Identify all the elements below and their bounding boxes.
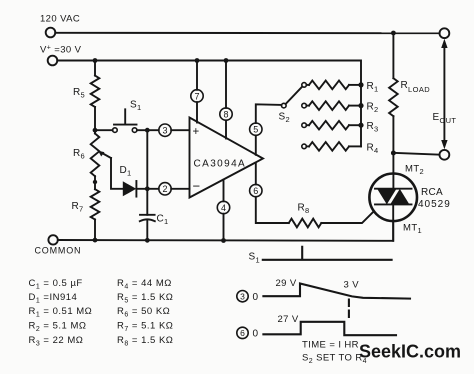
wire pin6 upper (255, 163, 257, 185)
svg-text:CA3094A: CA3094A (194, 159, 247, 170)
svg-text:R4: R4 (367, 142, 379, 155)
wire pin5 lower (255, 135, 257, 154)
triac triangle up (390, 189, 409, 204)
svg-text:S2 SET TO R4: S2 SET TO R4 (302, 353, 367, 366)
svg-text:+: + (193, 126, 200, 138)
svg-text:MT2: MT2 (405, 164, 424, 177)
wire R5 top (94, 61, 96, 76)
wire S1 to pin3 (137, 129, 159, 131)
junction V+ pin7 (195, 58, 200, 63)
svg-text:−: − (193, 179, 201, 194)
terminal EOUT top (440, 28, 450, 38)
pin 7 circle (191, 90, 203, 102)
wire common rail (58, 221, 393, 241)
resistor R5 (91, 76, 100, 107)
waveform S1 (263, 247, 392, 260)
svg-text:2: 2 (162, 184, 167, 194)
op-amp U1 CA3094A (190, 118, 264, 198)
switch S1 bar (114, 109, 137, 124)
svg-text:RLOAD: RLOAD (401, 80, 431, 94)
switch S2 wiper (286, 87, 303, 104)
waveform pin6 (263, 322, 396, 335)
wire pin2 to opamp (171, 188, 189, 190)
svg-text:C1: C1 (157, 214, 169, 227)
svg-text:R1 = 0.51 MΩ: R1 = 0.51 MΩ (29, 306, 93, 319)
svg-text:R8 = 1.5 KΩ: R8 = 1.5 KΩ (117, 335, 173, 348)
wire pin8 bottom (225, 120, 227, 138)
switch contact R1 (302, 83, 307, 88)
junction V+ pin8 (224, 58, 229, 63)
svg-text:6: 6 (240, 328, 245, 338)
triac bars (375, 188, 412, 190)
svg-text:4: 4 (221, 203, 226, 213)
junction node A (145, 128, 150, 133)
svg-text:S1: S1 (249, 252, 260, 265)
resistor R1 (306, 84, 309, 86)
junction R2 right (358, 103, 363, 108)
node 6 waveform circle (237, 327, 248, 338)
svg-text:S2: S2 (279, 112, 290, 125)
resistor RLOAD (389, 78, 398, 116)
resistor R4 (306, 145, 309, 147)
svg-text:27 V: 27 V (278, 314, 299, 325)
svg-text:C1 = 0.5 µF: C1 = 0.5 µF (29, 278, 83, 291)
wire MT1 (392, 204, 394, 240)
resistor R7 (91, 189, 100, 219)
resistor R2 (306, 105, 309, 107)
wire wiper to D1 (111, 158, 123, 189)
svg-text:SeekIC.com: SeekIC.com (359, 342, 461, 362)
wire to S1 (95, 129, 113, 131)
svg-text:40529: 40529 (418, 199, 451, 210)
wiper arrow R6 (102, 153, 112, 158)
waveform pin3 (263, 284, 410, 299)
svg-text:R8: R8 (298, 203, 310, 216)
junction rail C1 (145, 238, 150, 243)
junction D1 node (145, 186, 150, 191)
wire pin4 bottom (223, 214, 225, 241)
svg-text:R6: R6 (73, 148, 85, 161)
resistor R6 potentiometer (91, 134, 100, 177)
svg-text:R2 = 5.1 MΩ: R2 = 5.1 MΩ (29, 321, 87, 334)
junction EOUT (391, 151, 396, 156)
svg-text:7: 7 (194, 91, 199, 101)
wire C1 bottom (146, 220, 148, 240)
svg-text:8: 8 (223, 110, 228, 120)
svg-text:R1: R1 (367, 81, 379, 94)
wire pin7 top (196, 61, 198, 90)
wire D1 to pin2 (136, 188, 158, 190)
svg-text:6: 6 (253, 186, 258, 196)
svg-text:3 V: 3 V (344, 280, 360, 291)
svg-text:R4 = 44 MΩ: R4 = 44 MΩ (117, 278, 172, 291)
switch S1 contact left (113, 128, 118, 133)
junction S1 branch (93, 128, 98, 133)
wire pin7 bottom (196, 102, 198, 122)
pin 6 circle (250, 184, 262, 196)
svg-text:R5 = 1.5 KΩ: R5 = 1.5 KΩ (117, 292, 173, 305)
pin 3 circle (159, 124, 171, 136)
switch S2 pole (282, 103, 287, 108)
svg-text:120 VAC: 120 VAC (40, 14, 80, 25)
wire pin8 top (225, 61, 227, 108)
junction RLOAD top (391, 31, 396, 36)
wire RLOAD top (392, 33, 394, 78)
svg-text:R7: R7 (72, 201, 84, 214)
svg-text:R7 = 5.1 KΩ: R7 = 5.1 KΩ (117, 321, 173, 334)
svg-text:RCA: RCA (421, 187, 443, 198)
svg-text:3: 3 (162, 126, 167, 136)
wire RLOAD bottom (392, 116, 394, 153)
dashed marker (348, 300, 350, 318)
svg-text:5: 5 (253, 125, 258, 135)
wire EOUT (393, 153, 439, 155)
capacitor C1 (140, 214, 155, 216)
svg-text:R3 = 22 MΩ: R3 = 22 MΩ (29, 335, 84, 348)
svg-text:S1: S1 (130, 100, 141, 113)
pin 2 circle (159, 183, 171, 195)
wire R7 bottom (94, 220, 96, 241)
terminal V+ (48, 56, 58, 66)
node 3 waveform circle (237, 291, 248, 302)
resistor R8 (289, 219, 322, 228)
switch contact R4 (302, 144, 307, 149)
junction R1 right (358, 82, 363, 87)
wire R5-S1 node (94, 107, 96, 134)
svg-text:COMMON: COMMON (35, 246, 82, 256)
switch contact R2 (302, 103, 307, 108)
junction R3 right (358, 123, 363, 128)
svg-text:V+ =30 V: V+ =30 V (40, 45, 82, 56)
svg-text:R2: R2 (367, 102, 379, 115)
svg-text:0: 0 (253, 329, 259, 340)
pin 4 circle (217, 201, 229, 213)
svg-text:TIME = I HR: TIME = I HR (302, 340, 359, 351)
svg-text:R6 = 50 KΩ: R6 = 50 KΩ (117, 306, 170, 319)
wire R6-R7 (94, 176, 96, 189)
svg-text:D1: D1 (120, 165, 132, 178)
wire pin6 to R8 (256, 197, 289, 223)
junction rail pin4 (221, 238, 226, 243)
svg-text:0: 0 (253, 292, 259, 303)
wire node A vertical (146, 130, 148, 215)
diode D1 (123, 181, 136, 196)
wire MT2 (392, 153, 394, 189)
junction V+ R5 (93, 58, 98, 63)
wire 120VAC rail (55, 32, 439, 34)
wire V+ rail (57, 61, 361, 147)
resistor R3 (306, 124, 309, 126)
wire gate (321, 211, 374, 223)
terminal COMMON (48, 235, 57, 244)
svg-text:29 V: 29 V (276, 278, 297, 289)
svg-text:R5: R5 (73, 87, 85, 100)
switch contact R3 (302, 123, 307, 128)
junction R6-R7 (93, 180, 97, 184)
svg-text:D1 =IN914: D1 =IN914 (29, 292, 78, 305)
terminal EOUT bottom (440, 150, 450, 160)
wire pin3 to opamp (171, 129, 189, 131)
junction rail R7 (93, 238, 98, 243)
wire pin5 to S2 (256, 104, 282, 123)
terminal 120 VAC (46, 28, 56, 38)
pin 5 circle (250, 123, 262, 135)
switch S1 contact right (132, 128, 137, 133)
svg-text:MT1: MT1 (403, 223, 422, 236)
triac triangle down (377, 189, 396, 204)
arrow EOUT measure (443, 44, 445, 145)
svg-text:3: 3 (240, 291, 245, 301)
triac Q1 body (369, 174, 417, 222)
pin 8 circle (220, 108, 232, 120)
wire pin4 top (223, 180, 225, 202)
svg-text:R3: R3 (367, 121, 379, 134)
